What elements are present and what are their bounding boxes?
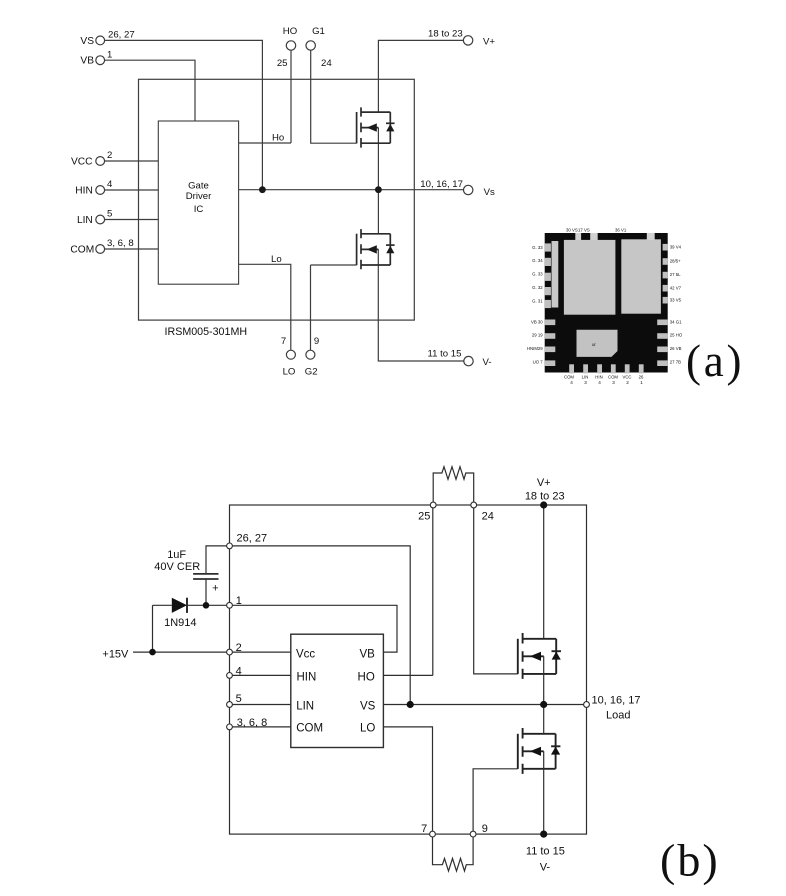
svg-text:1N914: 1N914 <box>164 617 196 629</box>
svg-text:LO: LO <box>283 366 296 377</box>
svg-text:LO: LO <box>360 723 375 735</box>
svg-text:25 HO: 25 HO <box>670 333 683 338</box>
svg-text:+15V: +15V <box>102 649 129 661</box>
svg-text:VB 30: VB 30 <box>531 319 543 324</box>
svg-text:V+: V+ <box>537 477 551 489</box>
svg-text:G2: G2 <box>305 366 318 377</box>
svg-text:VCC: VCC <box>622 374 631 379</box>
svg-text:24: 24 <box>482 511 494 523</box>
svg-text:HIN: HIN <box>297 672 317 684</box>
svg-text:3, 6, 8: 3, 6, 8 <box>107 238 134 249</box>
svg-text:COM: COM <box>296 723 323 735</box>
svg-text:G1: G1 <box>312 26 325 37</box>
svg-text:27 7B: 27 7B <box>670 359 681 364</box>
svg-text:26 VB: 26 VB <box>670 346 682 351</box>
svg-text:G. 31: G. 31 <box>532 298 543 303</box>
svg-text:29 19: 29 19 <box>532 333 543 338</box>
svg-text:33 V5: 33 V5 <box>670 297 682 302</box>
svg-text:Vs: Vs <box>484 187 495 198</box>
svg-text:Lo: Lo <box>271 254 282 265</box>
svg-text:30 VS: 30 VS <box>566 228 578 233</box>
svg-text:7: 7 <box>281 336 286 347</box>
svg-text:Ho: Ho <box>272 132 284 143</box>
svg-text:26: 26 <box>639 374 644 379</box>
svg-text:COM: COM <box>608 374 618 379</box>
svg-text:(a): (a) <box>686 336 744 386</box>
svg-text:COM: COM <box>564 374 574 379</box>
svg-text:1uF: 1uF <box>167 549 186 561</box>
svg-text:VS: VS <box>360 700 376 712</box>
svg-text:HIN: HIN <box>595 374 602 379</box>
svg-text:26, 27: 26, 27 <box>108 30 135 41</box>
svg-text:2: 2 <box>236 642 242 654</box>
svg-text:HNIM29: HNIM29 <box>527 346 543 351</box>
svg-text:LIN: LIN <box>296 700 314 712</box>
svg-text:4: 4 <box>236 666 242 678</box>
svg-text:3: 3 <box>612 380 615 385</box>
svg-text:2: 2 <box>626 380 629 385</box>
svg-text:11 to 15: 11 to 15 <box>526 846 565 858</box>
svg-text:Load: Load <box>606 710 630 722</box>
svg-text:11 to 15: 11 to 15 <box>428 349 462 360</box>
svg-text:9: 9 <box>314 336 319 347</box>
svg-text:40V CER: 40V CER <box>154 561 200 573</box>
svg-text:HO: HO <box>358 672 375 684</box>
svg-text:27 5L: 27 5L <box>670 272 681 277</box>
svg-text:26, 27: 26, 27 <box>237 533 268 545</box>
svg-text:HIN: HIN <box>75 186 93 197</box>
svg-text:V-: V- <box>483 357 492 368</box>
svg-text:Vcc: Vcc <box>296 648 315 660</box>
svg-text:34 G1: 34 G1 <box>670 319 682 324</box>
svg-text:24: 24 <box>321 58 332 69</box>
svg-text:9: 9 <box>482 823 488 835</box>
svg-text:G. 34: G. 34 <box>532 258 543 263</box>
svg-text:V-: V- <box>540 862 551 874</box>
svg-text:18 to 23: 18 to 23 <box>428 29 463 40</box>
svg-text:VCC: VCC <box>71 157 93 168</box>
svg-text:VS: VS <box>80 36 94 47</box>
svg-text:5: 5 <box>236 693 242 705</box>
svg-text:7: 7 <box>421 823 427 835</box>
svg-text:25: 25 <box>277 58 288 69</box>
svg-text:LIN: LIN <box>582 374 589 379</box>
svg-text:4: 4 <box>107 179 113 190</box>
svg-text:1: 1 <box>236 595 242 607</box>
svg-text:LIN: LIN <box>77 215 93 226</box>
svg-text:3, 6, 8: 3, 6, 8 <box>237 717 268 729</box>
svg-text:18 to 23: 18 to 23 <box>525 490 565 502</box>
svg-text:G. 33: G. 33 <box>532 272 543 277</box>
svg-text:IC: IC <box>194 204 204 215</box>
svg-text:HO: HO <box>283 26 297 37</box>
svg-text:VB: VB <box>359 648 375 660</box>
svg-text:5: 5 <box>107 209 112 220</box>
svg-text:10, 16, 17: 10, 16, 17 <box>420 179 463 190</box>
svg-text:Driver: Driver <box>186 191 212 202</box>
svg-text:3: 3 <box>584 380 587 385</box>
svg-text:36 V1: 36 V1 <box>615 228 627 233</box>
svg-text:+: + <box>212 582 218 594</box>
svg-text:10, 16, 17: 10, 16, 17 <box>592 694 641 706</box>
svg-text:G. 33: G. 33 <box>532 245 543 250</box>
svg-text:G. 32: G. 32 <box>532 285 543 290</box>
svg-text:UO 7: UO 7 <box>533 359 544 364</box>
svg-text:4: 4 <box>598 380 601 385</box>
svg-text:25: 25 <box>418 511 430 523</box>
svg-text:17 VS: 17 VS <box>578 228 590 233</box>
svg-text:1: 1 <box>107 50 112 61</box>
svg-text:39 V4: 39 V4 <box>670 245 682 250</box>
svg-text:VB: VB <box>80 56 94 67</box>
svg-text:V+: V+ <box>483 36 495 47</box>
svg-text:28/5+: 28/5+ <box>670 258 681 263</box>
svg-text:COM: COM <box>70 245 94 256</box>
svg-text:42 V7: 42 V7 <box>670 285 682 290</box>
svg-text:(b): (b) <box>660 835 720 886</box>
svg-text:ur: ur <box>592 342 596 347</box>
svg-text:4: 4 <box>570 380 573 385</box>
svg-text:IRSM005-301MH: IRSM005-301MH <box>165 326 248 338</box>
svg-text:1: 1 <box>640 380 643 385</box>
svg-text:2: 2 <box>107 150 112 161</box>
